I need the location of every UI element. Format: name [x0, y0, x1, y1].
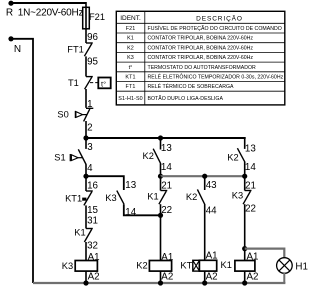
svg-text:K2: K2 [186, 192, 197, 202]
wire bottom rail [33, 282, 285, 284]
pushbutton S0 (NC stop contact 1-2) [86, 107, 93, 109]
wire [85, 164, 87, 177]
svg-text:A2: A2 [161, 271, 173, 282]
svg-text:R: R [6, 7, 13, 18]
svg-text:FT1: FT1 [126, 84, 136, 90]
svg-text:CONTATOR TRIPOLAR, BOBINA 220V: CONTATOR TRIPOLAR, BOBINA 220V-60Hz [148, 45, 254, 51]
svg-text:32: 32 [87, 240, 98, 251]
wire N down to bottom rail [11, 39, 33, 283]
wire [85, 205, 87, 228]
svg-text:K3: K3 [232, 190, 243, 200]
node junction dot [242, 174, 247, 179]
svg-text:A2: A2 [88, 271, 100, 282]
svg-text:KT: KT [180, 261, 192, 271]
svg-text:K1: K1 [221, 260, 232, 270]
svg-text:K3: K3 [62, 261, 73, 271]
node junction dot [202, 174, 207, 179]
svg-text:F21: F21 [89, 12, 105, 22]
node junction dot [158, 174, 163, 179]
svg-text:16: 16 [87, 181, 98, 192]
svg-text:H1: H1 [295, 261, 308, 272]
svg-text:21: 21 [161, 180, 172, 191]
contact K2 13-14 aux (left) [160, 138, 162, 150]
svg-text:T1: T1 [68, 78, 79, 88]
svg-text:FT1: FT1 [67, 45, 84, 55]
svg-text:K1: K1 [127, 36, 134, 42]
svg-text:F21: F21 [126, 26, 136, 32]
svg-text:TERMOSTATO DO AUTOTRANSFORMADO: TERMOSTATO DO AUTOTRANSFORMADOR [148, 65, 257, 71]
legend table [116, 11, 284, 105]
svg-text:A2: A2 [247, 271, 259, 282]
svg-text:13: 13 [245, 144, 256, 155]
wire main rail through fuse [85, 2, 87, 43]
svg-text:K3: K3 [105, 193, 116, 203]
svg-text:t°: t° [101, 80, 106, 89]
svg-text:K1: K1 [74, 228, 85, 238]
wire down to coil K2 [160, 215, 162, 261]
svg-text:S1-H1-S0: S1-H1-S0 [118, 96, 142, 102]
node junction dot lamp tap [242, 246, 247, 251]
coil K3 [75, 261, 97, 272]
svg-text:KT1: KT1 [65, 194, 82, 204]
wire [85, 89, 87, 108]
fuse F21 [83, 7, 90, 29]
svg-text:A2: A2 [206, 272, 218, 283]
node 4 junction dot [83, 174, 88, 179]
svg-text:2: 2 [87, 123, 92, 134]
svg-text:3: 3 [87, 142, 93, 153]
svg-text:K1: K1 [147, 192, 158, 202]
node rail junction dots [83, 280, 88, 285]
svg-text:S0: S0 [57, 110, 68, 120]
wire gray bus row [161, 175, 245, 177]
wire gray to lamp H1 [245, 249, 285, 258]
svg-text:N: N [14, 44, 21, 55]
node N terminal dot [8, 36, 13, 41]
svg-text:IDENT.: IDENT. [120, 15, 141, 22]
svg-text:K3: K3 [127, 55, 134, 61]
svg-text:43: 43 [206, 180, 217, 191]
svg-text:15: 15 [87, 205, 98, 216]
contact T1 thermostat t° [86, 76, 93, 78]
svg-text:13: 13 [161, 143, 172, 154]
dashed link to t° box [90, 82, 98, 84]
svg-text:S1: S1 [54, 152, 65, 162]
svg-text:96: 96 [87, 32, 98, 43]
svg-text:K2: K2 [127, 45, 134, 51]
wire R phase bus top [11, 2, 86, 4]
svg-text:CONTATOR TRIPOLAR, BOBINA 220V: CONTATOR TRIPOLAR, BOBINA 220V-60Hz [148, 36, 254, 42]
lamp H1 [277, 258, 293, 274]
svg-text:14: 14 [161, 162, 172, 173]
wire lamp to rail [283, 273, 285, 283]
contact K1 31-32 (NC interlock) [86, 228, 93, 230]
svg-text:1N~220V-60Hz: 1N~220V-60Hz [18, 8, 84, 19]
pushbutton S1 (NO start) [85, 138, 87, 149]
svg-text:4: 4 [87, 163, 93, 174]
svg-text:22: 22 [245, 204, 256, 215]
node R terminal dot [8, 1, 13, 6]
wire [85, 56, 87, 76]
svg-text:RELÉ ELETRÔNICO TEMPORIZADOR 0: RELÉ ELETRÔNICO TEMPORIZADOR 0-30s, 220V… [148, 74, 284, 81]
svg-text:RELÉ TÉRMICO DE SOBRECARGA: RELÉ TÉRMICO DE SOBRECARGA [148, 83, 235, 90]
svg-text:14: 14 [245, 162, 256, 173]
t° box [98, 78, 110, 89]
svg-text:K2: K2 [227, 152, 238, 162]
svg-text:BOTÃO DUPLO LIGA-DESLIGA: BOTÃO DUPLO LIGA-DESLIGA [148, 95, 224, 102]
svg-text:FUSÍVEL DE PROTEÇÃO DO CIRCUIT: FUSÍVEL DE PROTEÇÃO DO CIRCUITO DE COMAN… [148, 25, 282, 32]
svg-text:K2: K2 [143, 151, 154, 161]
wire bus from node 2 to K2 right branch [86, 137, 246, 139]
svg-text:K2: K2 [136, 261, 147, 271]
svg-text:KT1: KT1 [125, 75, 135, 81]
wire K3 aux to node [124, 204, 161, 215]
contact KT1 timer (15-16 NC timed) [85, 176, 87, 191]
svg-text:DESCRIÇÃO: DESCRIÇÃO [196, 13, 243, 22]
svg-text:95: 95 [87, 57, 98, 68]
node junction dot on bus at K2 left aux [158, 135, 163, 140]
node junction dot [158, 213, 163, 218]
svg-text:t°: t° [129, 65, 133, 71]
wire down to coil KT1 [204, 204, 206, 260]
svg-text:31: 31 [87, 216, 98, 227]
wire [85, 242, 87, 261]
contact K3 13-14 aux branch [86, 176, 124, 190]
svg-text:21: 21 [245, 180, 256, 191]
node 2 junction dot [83, 135, 88, 140]
wire coil K3 to rail [85, 271, 87, 283]
svg-text:13: 13 [125, 180, 136, 191]
svg-text:44: 44 [206, 205, 217, 216]
wire [85, 121, 87, 139]
contact K2 13-14 aux (right) [244, 138, 246, 149]
wire down to coil K1 [244, 204, 246, 261]
contact FT1 (NC thermal overload 95-96) [86, 42, 93, 44]
svg-text:CONTATOR TRIPOLAR, BOBINA 220V: CONTATOR TRIPOLAR, BOBINA 220V-60Hz [148, 55, 254, 61]
